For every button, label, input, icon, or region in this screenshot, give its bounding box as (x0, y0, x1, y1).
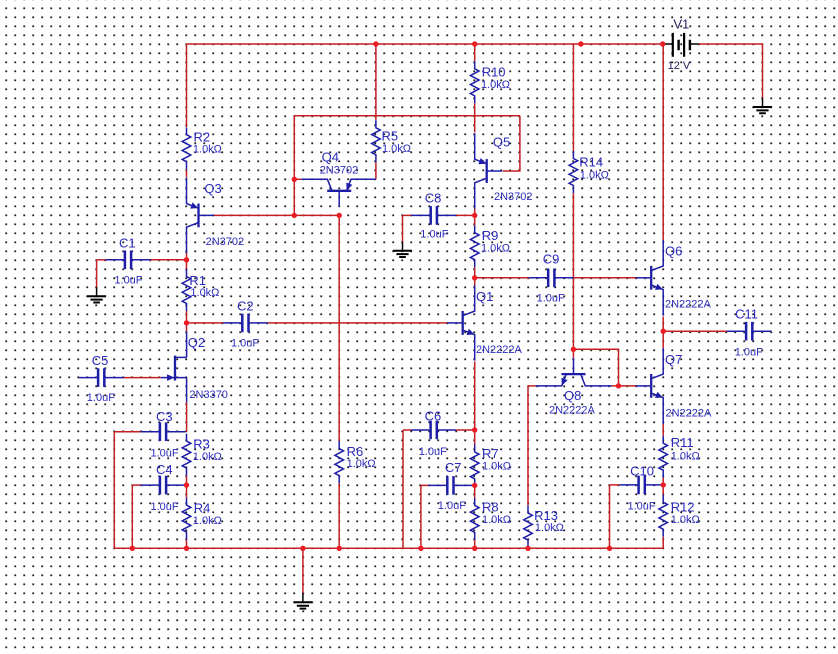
svg-text:C6: C6 (425, 409, 442, 424)
svg-text:C7: C7 (445, 460, 462, 475)
svg-text:Q1: Q1 (476, 289, 493, 304)
svg-text:1.0uF: 1.0uF (419, 446, 447, 458)
wire node to C2 (187, 322, 224, 324)
battery V1 12V (664, 17, 698, 73)
junction (292, 177, 297, 182)
capacitor C5 (79, 353, 124, 404)
svg-text:1.0kΩ: 1.0kΩ (671, 514, 700, 526)
svg-text:2N2222A: 2N2222A (476, 344, 523, 356)
svg-text:Q4: Q4 (322, 150, 339, 165)
wire dogleg to Q7 base node (573, 349, 618, 386)
resistor R3 (182, 434, 222, 476)
svg-text:2N2222A: 2N2222A (549, 404, 596, 416)
wire R12 to rail (662, 537, 664, 549)
wire C7 to node (473, 484, 475, 486)
svg-text:C2: C2 (237, 299, 254, 314)
capacitor C9 (529, 252, 574, 305)
svg-text:V1: V1 (673, 17, 689, 32)
svg-text:Q2: Q2 (188, 335, 205, 350)
capacitor C2 (223, 299, 268, 350)
resistor R10 (470, 61, 510, 103)
wire R9 to Q1 collector (474, 267, 476, 286)
wire Q8 emitter to R13 (527, 386, 529, 506)
svg-text:2N3370: 2N3370 (189, 389, 228, 401)
svg-text:C8: C8 (425, 190, 442, 205)
transistor Q2 (2N3370 JFET) (161, 331, 228, 402)
junction (184, 546, 189, 551)
svg-text:1.0kΩ: 1.0kΩ (535, 522, 564, 534)
wire Q1 emitter down (474, 362, 476, 430)
svg-text:2N3702: 2N3702 (320, 164, 359, 176)
wire C7 branch down (420, 485, 422, 548)
svg-text:1.0kΩ: 1.0kΩ (671, 450, 700, 462)
svg-text:2N3702: 2N3702 (494, 191, 533, 203)
wire R8 to rail (474, 540, 476, 548)
capacitor C1 (106, 235, 151, 286)
junction (472, 483, 477, 488)
svg-text:C4: C4 (156, 462, 173, 477)
svg-text:1.0kΩ: 1.0kΩ (382, 143, 411, 155)
wire Q3 base run (214, 214, 339, 216)
wire to Q4 left pin (294, 178, 301, 180)
capacitor C6 (411, 409, 456, 459)
transistor Q1 (2N2222A NPN) (447, 285, 522, 361)
svg-text:R5: R5 (382, 129, 399, 144)
wire C8 to node (456, 214, 475, 216)
svg-text:Q8: Q8 (564, 388, 581, 403)
svg-text:R14: R14 (579, 155, 603, 170)
wire Q8 emitter (528, 385, 536, 387)
junction (292, 213, 297, 218)
wire C4 branch down (131, 485, 133, 548)
transistor Q4 (2N3702 PNP rotated) (301, 150, 376, 207)
wire Q6 emitter to node (662, 317, 664, 332)
wire C1 to ground (96, 260, 98, 287)
transistor Q5 (2N3702 PNP) (475, 133, 533, 209)
resistor R6 (335, 441, 376, 483)
svg-text:1.0uF: 1.0uF (231, 337, 259, 349)
wire node to C9 (475, 277, 529, 279)
svg-text:1.0kΩ: 1.0kΩ (347, 458, 376, 470)
svg-text:R6: R6 (347, 444, 364, 459)
wire R11 to node (662, 478, 664, 485)
svg-text:1.0kΩ: 1.0kΩ (193, 144, 222, 156)
svg-text:2N2222A: 2N2222A (665, 299, 712, 311)
junction (184, 257, 189, 262)
capacitor C3 (141, 409, 186, 460)
junction (300, 546, 305, 551)
junction (660, 41, 665, 46)
wire R2 to Q3 emitter (186, 170, 188, 178)
svg-text:C5: C5 (92, 353, 109, 368)
svg-text:1.0uF: 1.0uF (628, 501, 656, 513)
junction (661, 329, 666, 334)
svg-text:2N3702: 2N3702 (206, 236, 245, 248)
wire V1 to ground (699, 44, 763, 98)
wire C8 to ground (402, 215, 404, 241)
ground (bottom rail) (294, 593, 313, 609)
junction (130, 546, 135, 551)
junction (184, 482, 189, 487)
wire to C10 left (610, 484, 620, 486)
svg-text:C11: C11 (735, 307, 758, 322)
ground (C1) (87, 287, 106, 303)
wire R14 to Q8 base node (572, 193, 574, 349)
wire Q2 source to C3 node (186, 402, 188, 432)
resistor R2 (182, 127, 222, 169)
wire R4 to rail (186, 540, 188, 549)
wire node to Q7 collector (662, 331, 664, 348)
wire R1 to Q2 drain node (186, 311, 188, 331)
svg-text:1.0uF: 1.0uF (438, 500, 466, 512)
junction (525, 546, 530, 551)
svg-text:1.0kΩ: 1.0kΩ (193, 451, 222, 463)
resistor R13 (524, 506, 564, 548)
svg-text:R13: R13 (534, 508, 558, 523)
wire rail to R14 (572, 44, 574, 151)
svg-text:1.0uF: 1.0uF (151, 448, 179, 460)
svg-text:1.0uF: 1.0uF (735, 346, 763, 358)
svg-text:R7: R7 (482, 446, 499, 461)
wire Q3 collector to R1 (186, 252, 188, 269)
svg-text:1.0uF: 1.0uF (87, 392, 115, 404)
svg-text:R3: R3 (193, 437, 210, 452)
capacitor C8 (411, 190, 456, 240)
wire box top (294, 115, 520, 117)
wire to C4 left (132, 484, 140, 486)
svg-text:1.0uF: 1.0uF (537, 292, 565, 304)
wire bottom rail (114, 547, 663, 549)
junction (418, 546, 423, 551)
resistor R1 (182, 269, 219, 311)
resistor R4 (182, 498, 222, 540)
wire R10 to Q5 emitter (474, 103, 476, 132)
svg-text:R8: R8 (482, 499, 499, 514)
resistor R12 (659, 495, 700, 537)
wire C6 branch down (402, 430, 404, 548)
svg-text:1.0uF: 1.0uF (151, 501, 179, 513)
wire node to R7 (474, 430, 476, 444)
wire top power rail (187, 43, 665, 45)
svg-text:C1: C1 (119, 235, 136, 250)
wire C9 to Q6 base (574, 277, 638, 279)
wire rail to R10 (474, 44, 476, 61)
wire to C6 left (403, 429, 411, 431)
wire Q4 node to R6 (338, 215, 340, 441)
ground (C8) (393, 242, 412, 258)
resistor R8 (470, 498, 511, 540)
junction (616, 383, 621, 388)
svg-text:R9: R9 (482, 228, 499, 243)
wire rail to R2 (186, 44, 188, 127)
svg-text:R11: R11 (671, 435, 694, 450)
wire Q7 emitter to R11 (662, 423, 664, 435)
junction (472, 275, 477, 280)
svg-text:1.0kΩ: 1.0kΩ (481, 79, 510, 91)
svg-text:1.0kΩ: 1.0kΩ (193, 515, 222, 527)
ground (V1) (753, 98, 772, 114)
capacitor C4 (141, 462, 186, 513)
junction (472, 427, 477, 432)
svg-text:C9: C9 (543, 252, 560, 267)
svg-text:R2: R2 (194, 130, 211, 145)
svg-text:R1: R1 (189, 273, 206, 288)
junction (578, 41, 583, 46)
junction (337, 213, 342, 218)
wire R3 to R4 (186, 476, 188, 498)
svg-text:Q3: Q3 (204, 181, 221, 196)
capacitor C11 (727, 307, 772, 359)
svg-text:12 V: 12 V (668, 60, 691, 72)
svg-text:1.0uF: 1.0uF (114, 275, 142, 287)
svg-text:R12: R12 (671, 500, 695, 515)
wire C10 branch down (609, 485, 611, 548)
wire C1 to node (151, 259, 187, 261)
resistor R7 (470, 444, 511, 486)
svg-text:R10: R10 (482, 64, 506, 79)
wire box left vertical (293, 116, 295, 216)
junction (373, 41, 378, 46)
resistor R11 (659, 435, 700, 478)
wire C6 to node (456, 429, 475, 431)
wire node to R12 (662, 485, 664, 495)
wire box right to Q5 base (503, 116, 520, 171)
resistor R5 (372, 120, 411, 162)
junction (472, 41, 477, 46)
svg-text:1.0kΩ: 1.0kΩ (580, 170, 609, 182)
wire Q8 collector to Q7 base (612, 385, 637, 387)
wire R6 to rail (338, 483, 340, 548)
wire node to C11 (663, 330, 727, 332)
svg-text:Q5: Q5 (493, 135, 510, 150)
wire rail to ground (302, 548, 304, 593)
wire to Q8 base (572, 349, 574, 358)
junction (184, 320, 189, 325)
junction (472, 213, 477, 218)
junction (661, 482, 666, 487)
capacitor C7 (428, 460, 473, 512)
svg-text:1.0kΩ: 1.0kΩ (482, 514, 511, 526)
wire C3 branch down (113, 432, 115, 549)
junction (571, 347, 576, 352)
svg-text:1.0uF: 1.0uF (420, 229, 448, 241)
wire to C3 left (114, 431, 140, 433)
wire to C7 left (421, 484, 428, 486)
svg-text:Q6: Q6 (665, 244, 682, 259)
svg-text:1.0kΩ: 1.0kΩ (481, 243, 510, 255)
svg-text:1.0kΩ: 1.0kΩ (190, 287, 219, 299)
wire C2 to Q1 base (268, 322, 447, 324)
wire node to R8 (474, 485, 476, 498)
junction (472, 546, 477, 551)
wire rail to Q6 collector (662, 44, 664, 241)
svg-text:1.0kΩ: 1.0kΩ (482, 460, 511, 472)
wire to C1 left (97, 259, 106, 261)
resistor R9 (470, 225, 510, 267)
svg-text:R4: R4 (194, 501, 211, 516)
svg-text:2N2222A: 2N2222A (666, 407, 713, 419)
wire rail to R5 (375, 44, 377, 120)
wire C5 to Q2 gate (124, 377, 161, 379)
transistor Q7 (2N2222A NPN) (636, 348, 712, 424)
junction (607, 546, 612, 551)
wire R5 to Q4 (375, 162, 377, 179)
svg-text:C10: C10 (630, 463, 654, 478)
wire Q5 collector to R9 (474, 209, 476, 226)
transistor Q6 (2N2222A NPN) (636, 240, 712, 316)
resistor R14 (569, 151, 609, 193)
svg-text:C3: C3 (156, 409, 173, 424)
wire to C8 left (403, 214, 412, 216)
transistor Q8 (2N2222A NPN rotated) (536, 358, 612, 416)
svg-text:Q7: Q7 (665, 352, 682, 367)
junction (337, 546, 342, 551)
transistor Q3 (2N3702 PNP) (187, 178, 245, 254)
capacitor C10 (619, 463, 664, 512)
